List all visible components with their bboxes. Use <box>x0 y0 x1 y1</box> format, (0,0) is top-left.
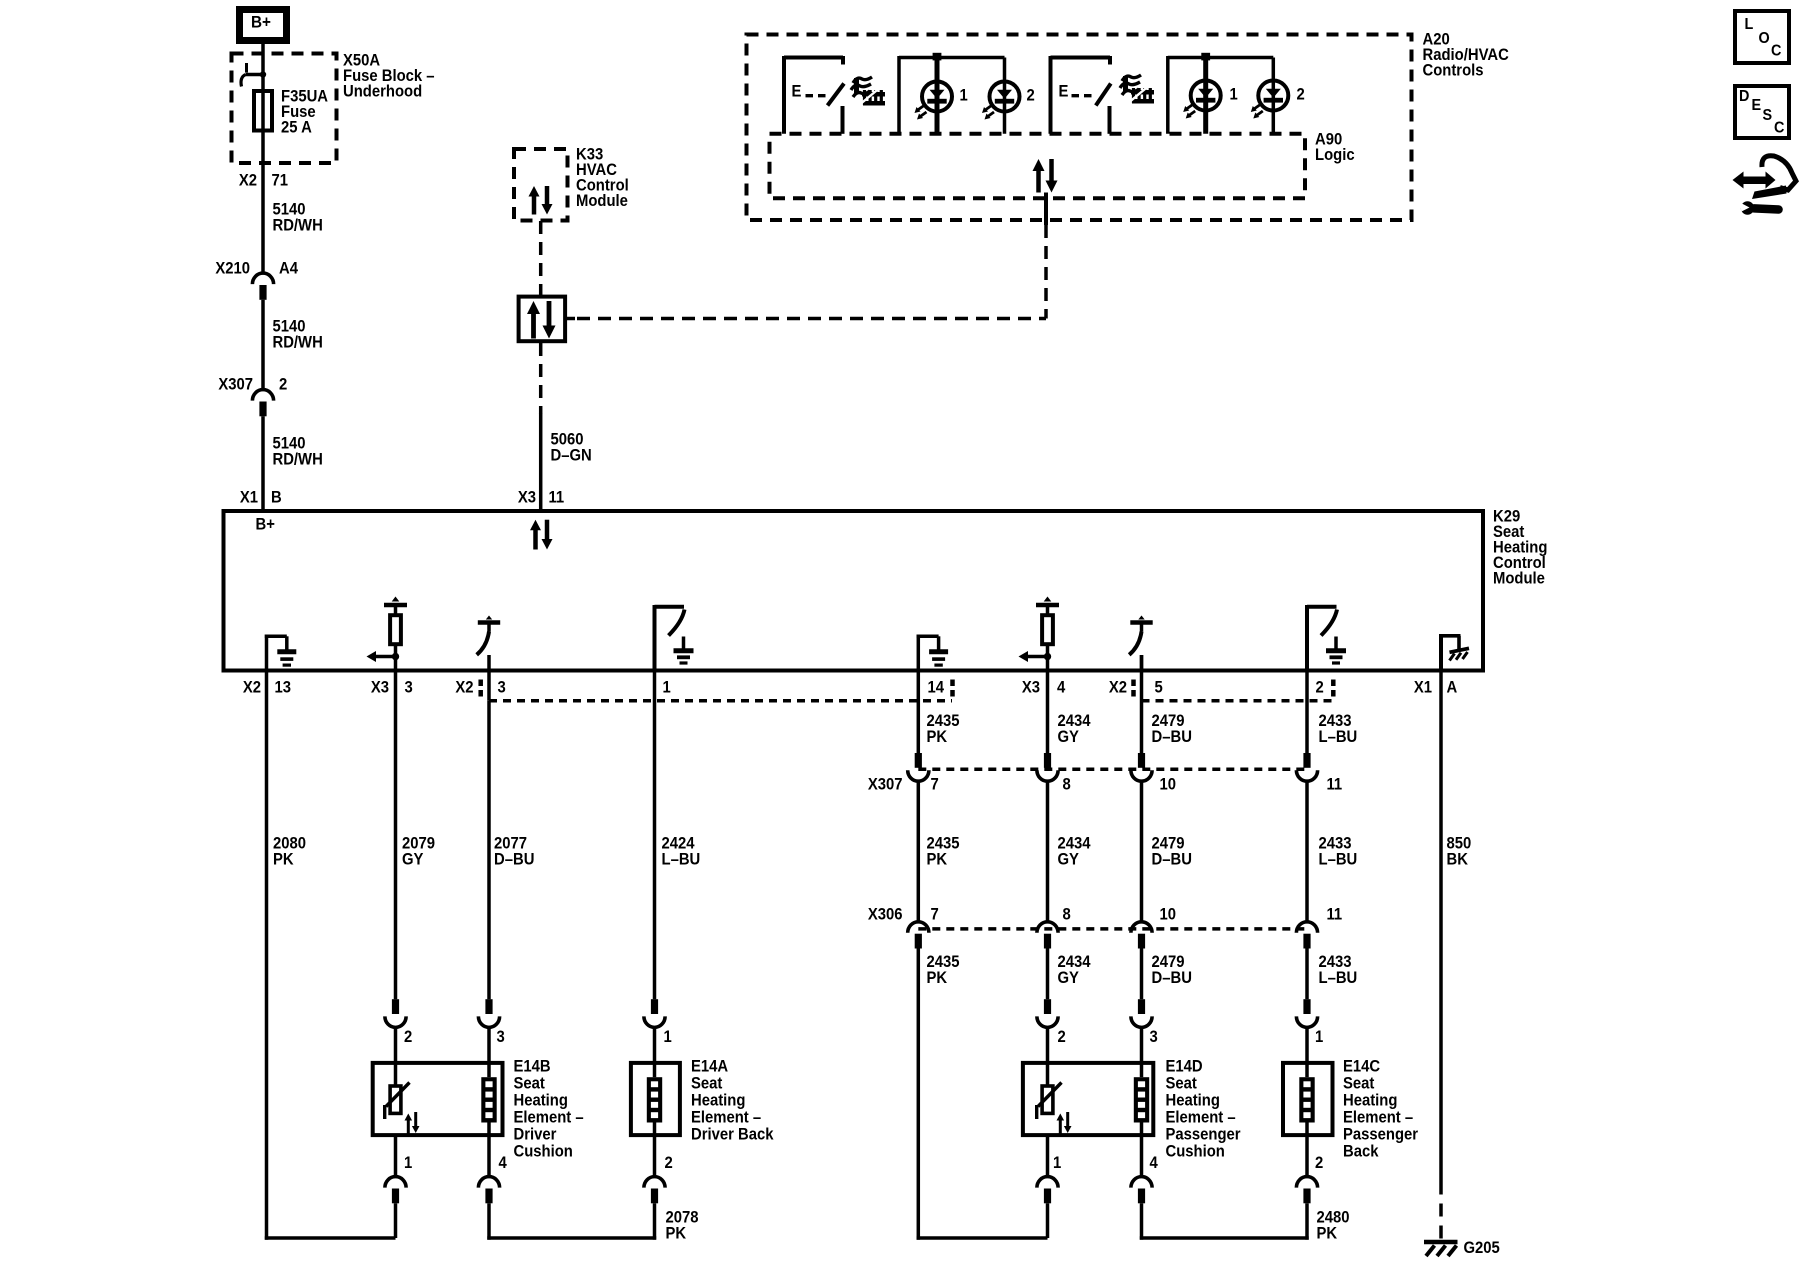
connector X306 pin 7 <box>908 906 939 949</box>
svg-text:PK: PK <box>666 1225 687 1243</box>
svg-text:Element –: Element – <box>1166 1109 1236 1127</box>
wire below E14D pin 1 <box>1046 1203 1050 1238</box>
pin label X1 A <box>1414 679 1457 697</box>
svg-text:8: 8 <box>1063 776 1072 794</box>
svg-text:1: 1 <box>1053 1154 1062 1172</box>
svg-text:Passenger: Passenger <box>1166 1126 1241 1144</box>
wire label 2424 L-BU <box>662 835 701 869</box>
wire label 5140 RD/WH (lower) <box>273 435 323 469</box>
wire label 2480 PK <box>1317 1209 1350 1243</box>
wire into E14C pin 1 <box>1305 1027 1309 1078</box>
indicator lamps block 2 (passenger) <box>1168 53 1274 134</box>
connector X306 pin 11 <box>1296 906 1342 949</box>
label E14D Seat Heating Element - Passenger Cushion <box>1166 1058 1241 1161</box>
internal switch at pin X2-3 <box>477 616 501 671</box>
svg-text:PK: PK <box>273 851 294 869</box>
svg-text:D–BU: D–BU <box>1152 728 1192 746</box>
label A90 Logic <box>1315 131 1355 164</box>
pin label X2 5 (dashed separator) <box>1109 679 1163 699</box>
svg-text:RD/WH: RD/WH <box>273 334 323 352</box>
connector at E14D pin 2 <box>1037 999 1066 1046</box>
svg-text:2: 2 <box>1316 679 1325 697</box>
connector X306 pin 10 <box>1131 906 1176 949</box>
svg-text:BK: BK <box>1447 851 1469 869</box>
svg-text:1: 1 <box>1315 1028 1324 1046</box>
internal switch to ground at pin 1 <box>655 605 694 671</box>
connector at E14C pin 2 (bottom) <box>1296 1154 1323 1203</box>
wire into E14D pin 2 <box>1046 1027 1050 1086</box>
svg-text:PK: PK <box>927 851 948 869</box>
label X307 <box>868 776 903 794</box>
element E14B Seat Heating Element - Driver Cushion (box) <box>373 1063 503 1135</box>
svg-text:L: L <box>1745 15 1754 33</box>
wire 2435 PK from pin 14 to X307 <box>917 671 921 754</box>
wire below E14B pin 1 <box>394 1203 398 1238</box>
label E14A Seat Heating Element - Driver Back <box>691 1058 774 1144</box>
svg-text:S: S <box>1763 106 1773 124</box>
connector X306 pin 8 <box>1037 906 1071 949</box>
svg-text:X2: X2 <box>455 679 473 697</box>
svg-text:Passenger: Passenger <box>1343 1126 1418 1144</box>
internal ground at pin X2-13 <box>265 635 297 671</box>
wire label 2433 L-BU (row A) <box>1319 712 1358 746</box>
svg-text:2: 2 <box>1058 1028 1067 1046</box>
wire - 5140 RD/WH middle segment <box>261 300 265 390</box>
wire - dashed serial data K33 down <box>539 221 543 295</box>
dashed net from pin X2-5 to pin 2 <box>1142 699 1333 703</box>
wire label 2435 PK (row B) <box>927 835 960 869</box>
wire 2077 D-BU from pin X2-3 <box>487 701 491 1000</box>
LED 1 passenger stage-1 indicator <box>1183 81 1238 119</box>
wire label 2479 D-BU (row A) <box>1152 712 1192 746</box>
connector at E14B pin 3 <box>478 999 505 1046</box>
pin label X3 11 at module entry <box>518 489 565 507</box>
connector row X307 dashed tie <box>918 768 1307 772</box>
wire - dashed serial data below coupler <box>539 343 543 414</box>
svg-text:D: D <box>1739 87 1749 105</box>
wire into E14B pin 2 <box>394 1027 398 1086</box>
label K33 HVAC Control Module <box>576 146 629 210</box>
svg-text:E: E <box>1059 83 1069 101</box>
thermistor inside E14D <box>1037 1083 1072 1135</box>
svg-text:10: 10 <box>1160 906 1177 924</box>
internal ground at pin 14 <box>917 635 949 671</box>
svg-text:D–BU: D–BU <box>1152 851 1192 869</box>
wire out of E14D pin 4 <box>1140 1123 1144 1177</box>
svg-text:10: 10 <box>1160 776 1177 794</box>
svg-text:X3: X3 <box>371 679 389 697</box>
wire label 2433 L-BU (row C) <box>1319 953 1358 987</box>
heater element inside E14C <box>1299 1077 1314 1122</box>
fuse holder clip symbol <box>241 63 266 87</box>
connector at E14B pin 1 (bottom) <box>385 1154 413 1203</box>
svg-text:Module: Module <box>1493 570 1545 588</box>
wire - serial data drop from A90 <box>1044 193 1048 319</box>
serial data arrows inside A90 <box>1033 159 1058 193</box>
heater element inside E14D <box>1134 1077 1149 1122</box>
wire label 2434 GY (row A) <box>1058 712 1091 746</box>
internal chassis ground at pin X1-A <box>1439 634 1469 671</box>
fuse F35UA 25 A <box>254 91 272 131</box>
wire label 2434 GY (row B) <box>1058 835 1091 869</box>
connector at E14D pin 4 (bottom) <box>1131 1154 1158 1203</box>
LED 2 passenger stage-2 indicator <box>1251 81 1305 119</box>
module K33 HVAC Control Module (dashed box) <box>514 149 568 221</box>
svg-text:Driver Back: Driver Back <box>691 1126 774 1144</box>
svg-text:3: 3 <box>498 679 507 697</box>
svg-text:E14C: E14C <box>1343 1058 1380 1076</box>
svg-text:X2: X2 <box>1109 679 1127 697</box>
svg-text:Underhood: Underhood <box>343 83 422 101</box>
wire into E14A pin 1 <box>653 1027 657 1078</box>
svg-text:3: 3 <box>497 1028 506 1046</box>
connector at E14D pin 1 (bottom) <box>1037 1154 1062 1203</box>
svg-text:A: A <box>1447 679 1458 697</box>
fuse block X50A - Underhood (dashed box) <box>232 54 337 164</box>
logic block A90 (dashed box) <box>770 134 1306 199</box>
wire - 5140 RD/WH lower segment <box>261 416 265 511</box>
svg-text:E: E <box>792 83 802 101</box>
dashed net from pin X2-3 to pin 14 <box>489 671 952 701</box>
svg-text:3: 3 <box>1150 1028 1159 1046</box>
thermistor inside E14B <box>385 1083 420 1135</box>
svg-text:GY: GY <box>1058 969 1080 987</box>
wire label 2078 PK <box>666 1209 699 1243</box>
wire 2480 PK from E14D pin 4 to E14C pin 2 <box>1140 1203 1309 1239</box>
svg-text:11: 11 <box>549 489 565 507</box>
internal sense resistor at pin X3-4 <box>1019 597 1060 671</box>
svg-text:RD/WH: RD/WH <box>273 451 323 469</box>
svg-text:X306: X306 <box>868 906 903 924</box>
pin label 14 (dashed separator) <box>928 679 953 699</box>
svg-text:GY: GY <box>1058 851 1080 869</box>
internal switch at pin X2-5 <box>1129 616 1153 671</box>
wire label 2077 D-BU <box>494 835 534 869</box>
svg-text:Seat: Seat <box>1166 1075 1198 1093</box>
pin label 1 <box>663 679 672 697</box>
svg-text:X1: X1 <box>1414 679 1432 697</box>
connector X307 pin 11 <box>1296 753 1342 794</box>
internal sense resistor at pin X3-3 <box>367 597 408 671</box>
LED 1 driver stage-1 indicator <box>915 82 969 120</box>
connector row X306 dashed tie <box>918 927 1307 931</box>
svg-text:4: 4 <box>499 1154 508 1172</box>
ground G205 <box>1424 1239 1500 1257</box>
connector at E14C pin 1 <box>1296 999 1323 1046</box>
svg-text:4: 4 <box>1150 1154 1159 1172</box>
svg-text:L–BU: L–BU <box>1319 728 1358 746</box>
wire - 5060 D-GN into module <box>539 414 543 512</box>
wire 2434 GY X306 down <box>1046 949 1050 1000</box>
svg-text:GY: GY <box>402 851 424 869</box>
pin label X2 3 (dashed separator) <box>455 679 506 699</box>
svg-text:Module: Module <box>576 192 628 210</box>
svg-text:PK: PK <box>927 728 948 746</box>
wire 2080 PK from pin X2-13 <box>265 671 396 1240</box>
svg-text:25 A: 25 A <box>281 119 312 137</box>
svg-text:Logic: Logic <box>1315 146 1355 164</box>
label A20 Radio/HVAC Controls <box>1423 31 1509 80</box>
connector at E14D pin 3 <box>1131 999 1158 1046</box>
svg-text:E: E <box>1752 96 1762 114</box>
svg-text:Heating: Heating <box>691 1092 745 1110</box>
svg-text:PK: PK <box>1317 1225 1338 1243</box>
wire - B+ feed down into fuse block <box>261 43 265 273</box>
svg-text:D–BU: D–BU <box>494 851 534 869</box>
pin label X3 3 <box>371 679 413 697</box>
label E14B Seat Heating Element - Driver Cushion <box>514 1058 584 1161</box>
wire 2433 L-BU from pin 2 to X307 <box>1305 671 1309 754</box>
wire label 2479 D-BU (row B) <box>1152 835 1192 869</box>
svg-text:X3: X3 <box>1022 679 1040 697</box>
svg-text:RD/WH: RD/WH <box>273 217 323 235</box>
element E14D Seat Heating Element - Passenger Cushion (box) <box>1023 1063 1153 1135</box>
svg-text:1: 1 <box>960 87 969 105</box>
svg-text:1: 1 <box>663 679 672 697</box>
wire label 2434 GY (row C) <box>1058 953 1091 987</box>
label X306 <box>868 906 903 924</box>
svg-text:X3: X3 <box>518 489 536 507</box>
pin label X2 13 <box>243 679 291 697</box>
net label B+ inside module <box>256 516 275 534</box>
wire 2434 GY from pin X3-4 to X307 <box>1046 671 1050 754</box>
svg-text:2: 2 <box>665 1154 674 1172</box>
wire label 2079 GY <box>402 835 435 869</box>
wire 2434 GY X307 to X306 <box>1046 781 1050 922</box>
svg-text:X307: X307 <box>868 776 903 794</box>
wire out of E14C pin 2 <box>1305 1123 1309 1177</box>
svg-text:13: 13 <box>275 679 292 697</box>
heater element inside E14A <box>647 1077 662 1122</box>
pin label X1 B at module entry <box>240 489 282 507</box>
svg-text:C: C <box>1771 42 1781 60</box>
svg-text:Seat: Seat <box>1343 1075 1375 1093</box>
wire label 2080 PK <box>273 835 306 869</box>
svg-text:Controls: Controls <box>1423 62 1484 80</box>
svg-text:2: 2 <box>279 376 288 394</box>
wire 850 BK from pin X1-A to G205 <box>1439 671 1443 1241</box>
svg-text:2: 2 <box>404 1028 413 1046</box>
module A20 Radio/HVAC Controls (dashed box) <box>747 35 1412 221</box>
wire 2424 L-BU from pin 1 <box>653 671 657 1000</box>
svg-text:7: 7 <box>931 776 940 794</box>
wire label 2435 PK (row C) <box>927 953 960 987</box>
wire label 2479 D-BU (row C) <box>1152 953 1192 987</box>
connector X307 pin 10 <box>1131 753 1176 794</box>
serial data arrows at X3-11 inside module <box>530 520 553 550</box>
svg-text:71: 71 <box>272 172 289 190</box>
power symbol B+ (battery feed) <box>240 10 287 41</box>
svg-text:14: 14 <box>928 679 945 697</box>
svg-text:B: B <box>271 489 282 507</box>
in-line connector X307 pin 2 <box>218 376 287 417</box>
svg-text:2: 2 <box>1027 87 1036 105</box>
wire label 2433 L-BU (row B) <box>1319 835 1358 869</box>
svg-text:Element –: Element – <box>691 1109 761 1127</box>
indicator lamps block 1 (driver) <box>899 53 1005 134</box>
svg-text:B+: B+ <box>256 516 275 534</box>
switch S1 driver heated seat switch (E contact) <box>784 56 844 134</box>
svg-text:Heating: Heating <box>514 1092 568 1110</box>
svg-text:2: 2 <box>1315 1154 1324 1172</box>
svg-text:11: 11 <box>1327 776 1343 794</box>
connector at E14B pin 4 (bottom) <box>478 1154 507 1203</box>
element E14A Seat Heating Element - Driver Back (box) <box>631 1063 680 1135</box>
heater element inside E14B <box>481 1077 496 1122</box>
connector at E14B pin 2 <box>385 999 413 1046</box>
connector X307 pin 7 <box>908 753 939 794</box>
svg-text:GY: GY <box>1058 728 1080 746</box>
svg-text:Back: Back <box>1343 1143 1379 1161</box>
svg-text:Element –: Element – <box>1343 1109 1413 1127</box>
svg-text:5: 5 <box>1155 679 1164 697</box>
svg-text:2: 2 <box>1297 86 1306 104</box>
svg-text:E14D: E14D <box>1166 1058 1203 1076</box>
module K29 Seat Heating Control Module <box>224 511 1484 671</box>
connector X307 pin 8 <box>1037 753 1071 794</box>
svg-text:E14A: E14A <box>691 1058 728 1076</box>
wire 2479 D-BU X307 to X306 <box>1140 781 1144 922</box>
svg-text:Heating: Heating <box>1166 1092 1220 1110</box>
svg-text:Cushion: Cushion <box>1166 1143 1225 1161</box>
connector at E14A pin 1 <box>644 999 672 1046</box>
wire 2435 PK X306 down <box>917 949 1048 1240</box>
label K29 Seat Heating Control Module <box>1493 508 1547 588</box>
svg-text:PK: PK <box>927 969 948 987</box>
LED 2 driver stage-2 indicator <box>982 82 1035 120</box>
wire out of E14B pin 4 <box>487 1123 491 1177</box>
icon interactive arrows and wrench <box>1733 156 1797 215</box>
svg-text:C: C <box>1774 119 1784 137</box>
svg-text:Element –: Element – <box>514 1109 584 1127</box>
svg-text:1: 1 <box>1230 86 1239 104</box>
wire 2435 PK X307 to X306 <box>917 781 921 922</box>
svg-text:Seat: Seat <box>691 1075 723 1093</box>
wire label 5140 RD/WH (upper) <box>273 201 323 235</box>
in-line serial data coupler (solid box with arrows) <box>519 297 566 342</box>
svg-text:O: O <box>1759 29 1770 47</box>
internal switch to ground at pin 2 <box>1307 605 1346 671</box>
switch S2 passenger heated seat switch (E contact) <box>1051 56 1111 134</box>
connector at E14A pin 2 (bottom) <box>644 1154 673 1203</box>
wire 2079 GY from pin X3-3 <box>394 671 398 1000</box>
icon box DESC <box>1735 86 1789 138</box>
svg-text:11: 11 <box>1327 906 1343 924</box>
svg-text:L–BU: L–BU <box>1319 851 1358 869</box>
element E14C Seat Heating Element - Passenger Back (box) <box>1283 1063 1333 1135</box>
svg-text:E14B: E14B <box>514 1058 551 1076</box>
pin label X3 4 <box>1022 679 1066 697</box>
svg-text:1: 1 <box>664 1028 673 1046</box>
svg-text:L–BU: L–BU <box>1319 969 1358 987</box>
svg-text:G205: G205 <box>1464 1239 1501 1257</box>
in-line connector X210 pin A4 <box>215 260 298 300</box>
svg-text:3: 3 <box>405 679 414 697</box>
svg-text:Cushion: Cushion <box>514 1143 573 1161</box>
svg-text:Heating: Heating <box>1343 1092 1397 1110</box>
pin label 2 (dashed separator) <box>1316 679 1334 699</box>
wire label 850 BK <box>1447 835 1472 869</box>
label F35UA Fuse 25 A <box>281 88 328 137</box>
wire label 5060 D-GN <box>551 431 592 465</box>
icon box LOC <box>1735 11 1789 63</box>
serial data arrows inside K33 <box>529 186 553 215</box>
svg-text:Seat: Seat <box>514 1075 546 1093</box>
svg-text:X1: X1 <box>240 489 258 507</box>
wire label 5140 RD/WH (middle) <box>273 318 323 352</box>
svg-text:X2: X2 <box>243 679 261 697</box>
wire into E14D pin 3 <box>1140 1027 1144 1078</box>
wire 2479 D-BU X306 down <box>1140 949 1144 1000</box>
svg-text:A4: A4 <box>279 260 298 278</box>
svg-text:1: 1 <box>404 1154 413 1172</box>
svg-text:8: 8 <box>1063 906 1072 924</box>
icon driver heated seat <box>851 77 885 106</box>
wire out of E14A pin 2 <box>653 1123 657 1177</box>
svg-text:D–GN: D–GN <box>551 447 592 465</box>
svg-text:B+: B+ <box>251 13 271 32</box>
wire 2078 PK from E14B pin 4 to E14A pin 2 <box>487 1203 656 1239</box>
svg-text:X307: X307 <box>218 376 253 394</box>
svg-text:Driver: Driver <box>514 1126 557 1144</box>
label X50A Fuse Block - Underhood <box>343 52 435 101</box>
wire out of E14B pin 1 <box>394 1135 398 1176</box>
pin label X2 71 at fuse block exit <box>239 172 288 190</box>
label E14C Seat Heating Element - Passenger Back <box>1343 1058 1418 1161</box>
wire 2433 L-BU X307 to X306 <box>1305 781 1309 922</box>
wire 2479 D-BU from pin X2-5 to X307 <box>1140 655 1144 753</box>
icon passenger heated seat <box>1120 75 1154 104</box>
svg-text:D–BU: D–BU <box>1152 969 1192 987</box>
wire - dashed serial data link to A20 (horizontal) <box>565 317 1046 321</box>
svg-text:X210: X210 <box>215 260 250 278</box>
wire 2433 L-BU X306 down <box>1305 949 1309 1000</box>
svg-text:X2: X2 <box>239 172 257 190</box>
svg-text:7: 7 <box>931 906 940 924</box>
svg-text:4: 4 <box>1057 679 1066 697</box>
wire label 2435 PK (row A) <box>927 712 960 746</box>
wire into E14B pin 3 <box>487 1027 491 1078</box>
svg-text:L–BU: L–BU <box>662 851 701 869</box>
wire out of E14D pin 1 <box>1046 1135 1050 1176</box>
